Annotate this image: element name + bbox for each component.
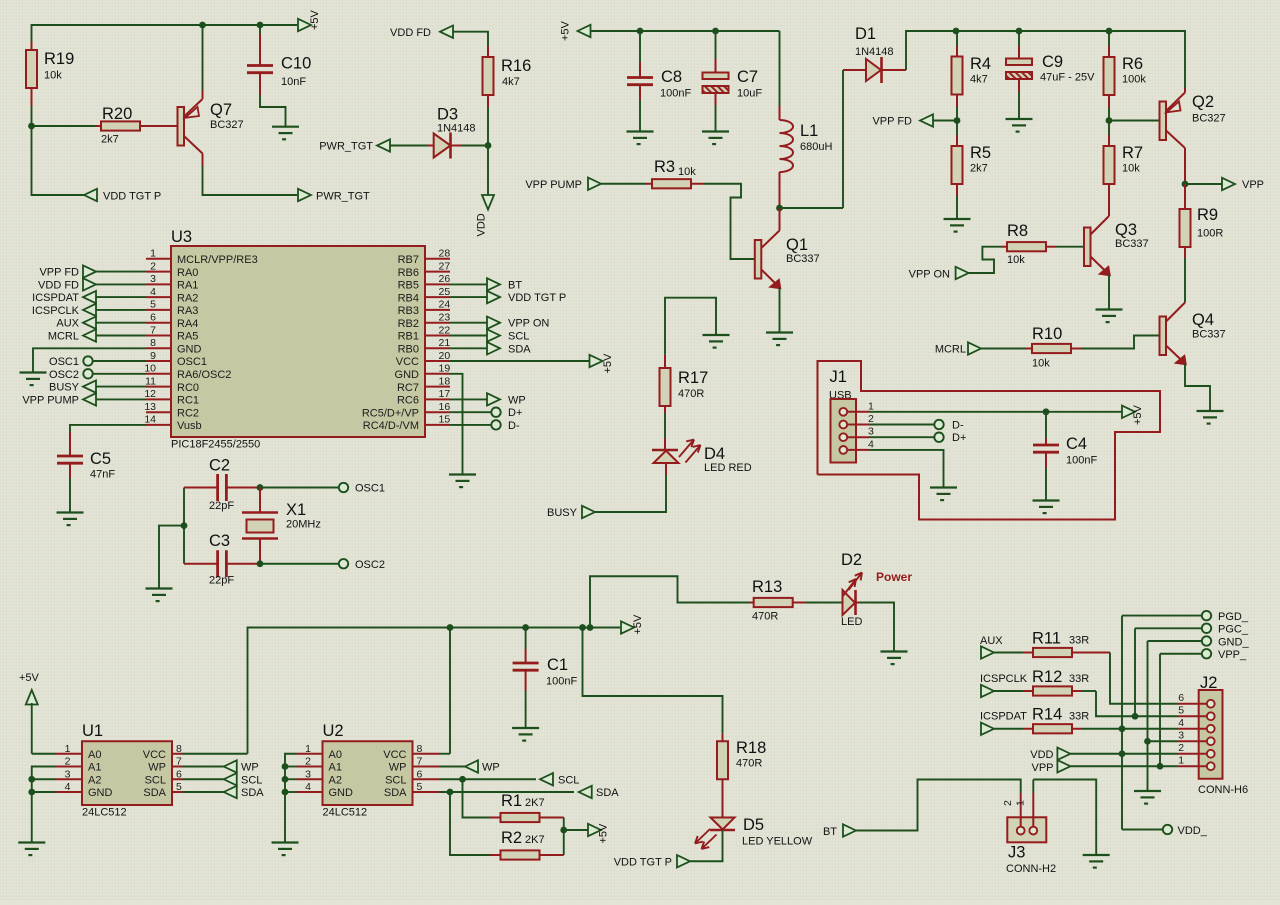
svg-text:4: 4 xyxy=(65,781,71,793)
ground xyxy=(1083,855,1110,868)
svg-text:C4: C4 xyxy=(1066,435,1087,453)
resistor R14 xyxy=(994,706,1089,734)
svg-text:VCC: VCC xyxy=(396,356,419,368)
svg-text:SCL: SCL xyxy=(558,774,579,786)
svg-text:ICSPDAT: ICSPDAT xyxy=(32,292,79,304)
svg-text:+5V: +5V xyxy=(560,20,572,41)
svg-text:C3: C3 xyxy=(209,532,230,550)
svg-text:PIC18F2455/2550: PIC18F2455/2550 xyxy=(171,439,260,451)
capacitor C10 xyxy=(247,25,311,95)
wire U1 VCC to rail xyxy=(183,753,248,755)
svg-text:J2: J2 xyxy=(1200,674,1217,692)
svg-text:3: 3 xyxy=(65,768,71,780)
terminal SCL U2 xyxy=(540,773,579,786)
svg-text:5: 5 xyxy=(176,781,182,793)
resistor R20 xyxy=(95,105,146,146)
svg-text:12: 12 xyxy=(144,388,156,400)
svg-text:8: 8 xyxy=(176,743,182,755)
wire R8 to Q3 base xyxy=(1056,246,1084,248)
power terminal +5V U1 xyxy=(19,672,40,754)
wire J1 pin4 to ground xyxy=(869,450,944,488)
resistor R6 xyxy=(1104,31,1147,108)
svg-text:SDA: SDA xyxy=(384,787,407,799)
svg-text:Q4: Q4 xyxy=(1192,311,1214,329)
svg-text:WP: WP xyxy=(482,762,500,774)
wire J1 pin2 to D- xyxy=(869,424,934,426)
svg-text:33R: 33R xyxy=(1069,711,1089,723)
svg-text:20: 20 xyxy=(439,350,451,362)
junction xyxy=(447,789,454,796)
svg-text:VPP PUMP: VPP PUMP xyxy=(525,179,582,191)
svg-text:16: 16 xyxy=(439,401,451,413)
terminal VPP FD xyxy=(872,114,933,127)
svg-text:GND: GND xyxy=(88,787,113,799)
terminal VPP PUMP xyxy=(525,178,601,191)
svg-text:OSC1: OSC1 xyxy=(177,356,207,368)
svg-text:RC5/D+/VP: RC5/D+/VP xyxy=(362,407,419,419)
svg-text:SDA: SDA xyxy=(241,787,264,799)
terminal SDA U2 xyxy=(579,786,620,799)
svg-text:GND: GND xyxy=(395,369,420,381)
svg-text:Q7: Q7 xyxy=(210,101,232,119)
terminal SCL U1 xyxy=(183,773,263,786)
svg-text:15: 15 xyxy=(439,414,451,426)
wire to ground xyxy=(159,526,184,589)
wire node to VDD terminal xyxy=(487,146,489,197)
wire R13 to D2 xyxy=(805,602,843,604)
connector J3 xyxy=(1002,780,1056,876)
svg-text:13: 13 xyxy=(144,401,156,413)
svg-text:D+: D+ xyxy=(508,407,522,419)
svg-text:Q3: Q3 xyxy=(1115,221,1137,239)
ground xyxy=(881,652,908,665)
svg-text:LED RED: LED RED xyxy=(704,462,752,474)
svg-text:AUX: AUX xyxy=(56,318,79,330)
resistor R8 xyxy=(1001,222,1056,266)
terminal VPP ON xyxy=(450,317,549,330)
svg-text:2: 2 xyxy=(305,756,311,768)
ground xyxy=(512,728,539,741)
ground xyxy=(57,513,84,526)
svg-text:U3: U3 xyxy=(171,228,192,246)
svg-text:24LC512: 24LC512 xyxy=(82,807,127,819)
svg-text:D+: D+ xyxy=(952,432,966,444)
svg-text:BUSY: BUSY xyxy=(49,382,80,394)
wire GND_ down to ground xyxy=(1147,641,1149,791)
junction xyxy=(1043,408,1050,415)
diode D3 1N4148 xyxy=(427,106,476,159)
svg-text:CONN-H2: CONN-H2 xyxy=(1006,863,1056,875)
wire rail to L1 xyxy=(779,31,781,106)
capacitor C7 electrolytic xyxy=(703,31,763,132)
wire BT to J3 pin2 xyxy=(856,780,1021,831)
svg-text:2k7: 2k7 xyxy=(970,163,988,175)
wire R6 node to R7 xyxy=(1108,121,1110,136)
svg-text:5: 5 xyxy=(1178,704,1184,716)
svg-text:J3: J3 xyxy=(1008,844,1025,862)
svg-text:PGD_: PGD_ xyxy=(1218,611,1249,623)
svg-text:19: 19 xyxy=(439,363,451,375)
wire to OSC1 xyxy=(260,487,339,489)
svg-text:R8: R8 xyxy=(1007,222,1028,240)
svg-text:R14: R14 xyxy=(1032,706,1062,724)
ground xyxy=(1197,411,1224,424)
svg-text:470R: 470R xyxy=(752,611,778,623)
svg-text:1N4148: 1N4148 xyxy=(855,46,894,58)
wire R14 to J2 pin4 xyxy=(1082,728,1178,730)
svg-text:R3: R3 xyxy=(654,158,675,176)
svg-text:D3: D3 xyxy=(437,106,458,124)
svg-text:J1: J1 xyxy=(830,368,847,386)
svg-text:RB7: RB7 xyxy=(398,254,419,266)
ground xyxy=(702,132,729,145)
wire Q2 emitter to rail xyxy=(1184,88,1186,93)
svg-text:OSC1: OSC1 xyxy=(355,483,385,495)
connector J1 outline xyxy=(818,361,1161,520)
svg-text:RA1: RA1 xyxy=(177,280,198,292)
svg-text:+5V: +5V xyxy=(19,672,40,684)
resistor R2 xyxy=(490,829,564,860)
svg-text:22pF: 22pF xyxy=(209,575,234,587)
wire D1 to VPP rail xyxy=(906,31,956,70)
junction VPP node xyxy=(1182,181,1189,188)
terminal VDD FD to RA1 xyxy=(38,278,146,291)
junction xyxy=(560,827,567,834)
svg-text:1: 1 xyxy=(150,248,156,260)
svg-text:D1: D1 xyxy=(855,25,876,43)
connector J1 body xyxy=(831,399,875,463)
junction GND pin3 xyxy=(1144,738,1151,745)
svg-text:VCC: VCC xyxy=(143,749,166,761)
svg-text:1N4148: 1N4148 xyxy=(437,123,476,135)
svg-text:6: 6 xyxy=(1178,692,1184,704)
svg-text:4: 4 xyxy=(1178,717,1184,729)
transistor Q4 xyxy=(1160,311,1226,365)
svg-text:X1: X1 xyxy=(286,501,306,519)
junction node VPP FD xyxy=(954,117,961,124)
capacitor C3 xyxy=(184,532,260,587)
svg-text:100R: 100R xyxy=(1197,228,1223,240)
wire rail to R18 xyxy=(583,628,723,734)
junction xyxy=(1106,28,1113,35)
wire PGD_ VDD_ vertical xyxy=(1121,616,1123,830)
wire J1 pin3 to D+ xyxy=(869,436,934,438)
terminal ICSPCLK xyxy=(980,673,1028,697)
svg-text:VDD: VDD xyxy=(1030,749,1053,761)
junction VDD VDD_ xyxy=(1119,750,1126,757)
wire Q1 emitter to ground xyxy=(779,288,781,333)
wire L1 to D1 anode riser xyxy=(780,70,844,208)
svg-text:RB4: RB4 xyxy=(398,292,419,304)
svg-text:10k: 10k xyxy=(1032,358,1050,370)
terminal PGD_ xyxy=(1122,611,1249,623)
wire J2 pin3 xyxy=(1148,740,1178,742)
wire VPP to J2 pin1 xyxy=(1070,765,1177,767)
svg-text:U2: U2 xyxy=(323,722,344,740)
wire U2 pins 1-4 to ground xyxy=(285,754,297,843)
terminal BT xyxy=(450,278,522,291)
svg-text:VPP PUMP: VPP PUMP xyxy=(22,394,79,406)
svg-text:C9: C9 xyxy=(1042,53,1063,71)
wire VPP_ down xyxy=(1159,654,1161,767)
svg-text:21: 21 xyxy=(439,337,451,349)
svg-text:C8: C8 xyxy=(661,68,682,86)
svg-text:WP: WP xyxy=(241,762,259,774)
svg-text:VCC: VCC xyxy=(383,749,406,761)
svg-text:R1: R1 xyxy=(501,792,522,810)
wire VPP rail xyxy=(956,31,1185,88)
svg-text:BT: BT xyxy=(508,279,522,291)
junction Q2 base node xyxy=(1106,117,1113,124)
terminal VPP_ xyxy=(1160,649,1247,661)
ground xyxy=(930,488,957,501)
capacitor C4 xyxy=(1033,412,1097,501)
wire +5V rail xyxy=(590,30,780,32)
svg-text:RC7: RC7 xyxy=(397,382,419,394)
svg-text:22pF: 22pF xyxy=(209,500,234,512)
wire node to R5 xyxy=(956,121,958,136)
terminal VDD xyxy=(1030,748,1070,761)
resistor R4 xyxy=(952,31,992,107)
resistor R18 xyxy=(717,734,766,780)
terminal ICSPCLK xyxy=(32,304,146,317)
svg-text:24LC512: 24LC512 xyxy=(323,807,368,819)
svg-text:6: 6 xyxy=(176,768,182,780)
svg-text:Q2: Q2 xyxy=(1192,93,1214,111)
junction xyxy=(257,484,264,491)
junction xyxy=(181,522,188,529)
junction VPP_ pin1 xyxy=(1157,763,1164,770)
svg-text:5: 5 xyxy=(150,299,156,311)
junction PGC pin5 xyxy=(1132,713,1139,720)
svg-text:OSC2: OSC2 xyxy=(355,559,385,571)
wire R9 to Q4 collector xyxy=(1166,258,1185,322)
svg-text:R12: R12 xyxy=(1032,668,1062,686)
svg-text:3: 3 xyxy=(1178,729,1184,741)
svg-text:7: 7 xyxy=(417,756,423,768)
svg-text:+5V: +5V xyxy=(602,353,614,374)
svg-text:ICSPDAT: ICSPDAT xyxy=(980,711,1027,723)
svg-text:D-: D- xyxy=(952,420,964,432)
svg-text:BT: BT xyxy=(823,826,837,838)
wire Q3 emitter to ground xyxy=(1108,275,1110,310)
wire node to VDD TGT P xyxy=(32,126,85,195)
svg-text:C2: C2 xyxy=(209,457,230,475)
wire R17 top to ground xyxy=(665,298,716,355)
wire D3 to node xyxy=(462,145,488,147)
ground xyxy=(1134,791,1161,804)
svg-text:PWR_TGT: PWR_TGT xyxy=(316,191,370,203)
svg-text:R20: R20 xyxy=(102,105,132,123)
svg-text:20MHz: 20MHz xyxy=(286,519,321,531)
svg-text:RB5: RB5 xyxy=(398,280,419,292)
terminal VDD_ xyxy=(1163,825,1208,837)
svg-text:PWR_TGT: PWR_TGT xyxy=(319,141,373,153)
wire rail to R13 xyxy=(590,576,749,627)
svg-text:7: 7 xyxy=(150,324,156,336)
svg-text:LED: LED xyxy=(841,616,862,628)
terminal ICSPDAT xyxy=(32,291,146,304)
svg-text:1: 1 xyxy=(1178,754,1184,766)
svg-text:VDD FD: VDD FD xyxy=(390,27,431,39)
svg-text:22: 22 xyxy=(439,324,451,336)
svg-text:10k: 10k xyxy=(678,166,696,178)
terminal VPP xyxy=(1031,760,1070,774)
terminal VPP xyxy=(1185,178,1264,191)
transistor Q2 xyxy=(1160,93,1226,149)
junction xyxy=(1016,28,1023,35)
wire +5V to U1 pin1 xyxy=(32,753,56,755)
svg-text:10k: 10k xyxy=(1007,254,1025,266)
wire R11 to J2 pin6 xyxy=(1082,653,1178,704)
svg-text:26: 26 xyxy=(439,273,451,285)
svg-text:A1: A1 xyxy=(329,762,342,774)
LED D5 xyxy=(695,779,813,849)
resistor R19 xyxy=(26,42,74,106)
svg-text:VDD TGT P: VDD TGT P xyxy=(614,857,672,869)
terminal PGC_ xyxy=(1135,624,1249,636)
junction xyxy=(28,776,35,783)
svg-text:C5: C5 xyxy=(90,450,111,468)
svg-text:VDD FD: VDD FD xyxy=(38,279,79,291)
svg-text:C10: C10 xyxy=(281,55,311,73)
svg-text:ICSPCLK: ICSPCLK xyxy=(980,673,1028,685)
wire R10 to Q4 base xyxy=(1081,336,1160,349)
svg-text:28: 28 xyxy=(439,248,451,260)
terminal OSC2 xyxy=(49,369,146,381)
wire R17 to D4 xyxy=(664,413,666,450)
svg-text:R2: R2 xyxy=(501,829,522,847)
svg-text:R5: R5 xyxy=(970,144,991,162)
terminal VPP FD to RA0 xyxy=(39,265,146,278)
svg-text:23: 23 xyxy=(439,312,451,324)
svg-text:8: 8 xyxy=(417,743,423,755)
wire R12 to J2 pin5 xyxy=(1082,691,1178,716)
svg-text:VPP ON: VPP ON xyxy=(508,318,549,330)
svg-text:WP: WP xyxy=(389,762,407,774)
junction xyxy=(953,28,960,35)
svg-text:BUSY: BUSY xyxy=(547,507,578,519)
terminal D- xyxy=(934,420,964,432)
svg-text:2k7: 2k7 xyxy=(101,134,119,146)
svg-text:SDA: SDA xyxy=(596,787,619,799)
svg-text:47uF - 25V: 47uF - 25V xyxy=(1040,72,1095,84)
resistor R16 xyxy=(483,46,532,107)
svg-text:4k7: 4k7 xyxy=(970,74,988,86)
ground xyxy=(18,843,45,856)
terminal D+ xyxy=(450,407,522,419)
svg-text:Power: Power xyxy=(876,570,912,584)
power terminal +5V xyxy=(298,9,321,31)
svg-text:470R: 470R xyxy=(736,758,762,770)
junction xyxy=(522,624,529,631)
terminal VDD TGT P bottom xyxy=(614,855,690,868)
junction xyxy=(28,789,35,796)
terminal VDD down xyxy=(476,195,495,237)
junction xyxy=(579,624,586,631)
svg-text:VDD_: VDD_ xyxy=(1178,825,1208,837)
svg-text:RB1: RB1 xyxy=(398,331,419,343)
wire R4 to node xyxy=(956,107,958,121)
svg-text:A0: A0 xyxy=(329,749,342,761)
svg-text:D2: D2 xyxy=(841,551,862,569)
svg-text:2: 2 xyxy=(868,413,874,425)
wire Q7 collector down xyxy=(203,154,298,196)
terminal PWR_TGT in xyxy=(319,139,390,152)
wire osc left bus xyxy=(183,488,185,564)
svg-text:R4: R4 xyxy=(970,55,991,73)
svg-text:10k: 10k xyxy=(44,70,62,82)
wire node to R20 xyxy=(32,125,96,127)
svg-text:10: 10 xyxy=(144,363,156,375)
svg-text:18: 18 xyxy=(439,375,451,387)
wire Q1 collector xyxy=(779,208,781,231)
wire SDA to R2 xyxy=(450,792,490,855)
junction xyxy=(257,22,264,29)
wire GND pin8 xyxy=(33,348,146,372)
junction xyxy=(637,28,644,35)
terminal MCRL xyxy=(935,342,981,355)
svg-text:100k: 100k xyxy=(1122,74,1146,86)
svg-text:2: 2 xyxy=(1002,800,1014,806)
terminal VPP PUMP xyxy=(22,393,146,406)
wire Vusb to C5 xyxy=(70,425,146,432)
svg-text:GND: GND xyxy=(329,787,354,799)
resistor R11 xyxy=(994,630,1089,658)
label Power xyxy=(876,570,912,584)
svg-text:680uH: 680uH xyxy=(800,141,832,153)
svg-text:25: 25 xyxy=(439,286,451,298)
junction L1 bottom xyxy=(776,205,783,212)
svg-text:RA2: RA2 xyxy=(177,292,198,304)
wire J1 pin1 +5V xyxy=(869,411,1046,413)
svg-text:AUX: AUX xyxy=(980,635,1003,647)
wire MCRL to R10 xyxy=(981,348,1026,350)
svg-text:10uF: 10uF xyxy=(737,88,762,100)
terminal BT bottom xyxy=(823,824,856,838)
resistor R1 xyxy=(490,792,564,822)
junction xyxy=(587,624,594,631)
label C9 xyxy=(1040,53,1095,84)
svg-text:D5: D5 xyxy=(743,816,764,834)
LED D4 xyxy=(652,440,752,476)
svg-text:C1: C1 xyxy=(547,656,568,674)
terminal WP U2 xyxy=(440,760,500,773)
svg-text:2: 2 xyxy=(65,756,71,768)
svg-text:SDA: SDA xyxy=(508,343,531,355)
svg-text:17: 17 xyxy=(439,388,451,400)
svg-text:RA5: RA5 xyxy=(177,331,198,343)
svg-text:ICSPCLK: ICSPCLK xyxy=(32,305,80,317)
svg-text:RB2: RB2 xyxy=(398,318,419,330)
svg-text:SCL: SCL xyxy=(385,774,406,786)
svg-text:A1: A1 xyxy=(88,762,101,774)
wire +5V bottom rail xyxy=(248,628,621,754)
svg-text:R19: R19 xyxy=(44,50,74,68)
svg-text:24: 24 xyxy=(439,299,451,311)
svg-text:A2: A2 xyxy=(88,774,101,786)
svg-text:14: 14 xyxy=(144,414,156,426)
svg-text:WP: WP xyxy=(508,394,526,406)
wire PWR_TGT to D3 xyxy=(390,145,427,147)
terminal WP xyxy=(450,393,526,406)
svg-text:1: 1 xyxy=(868,400,874,412)
svg-text:MCLR/VPP/RE3: MCLR/VPP/RE3 xyxy=(177,254,258,266)
terminal SDA U1 xyxy=(183,786,265,799)
svg-text:R10: R10 xyxy=(1032,325,1062,343)
svg-text:VPP FD: VPP FD xyxy=(872,116,912,128)
svg-text:47nF: 47nF xyxy=(90,469,115,481)
